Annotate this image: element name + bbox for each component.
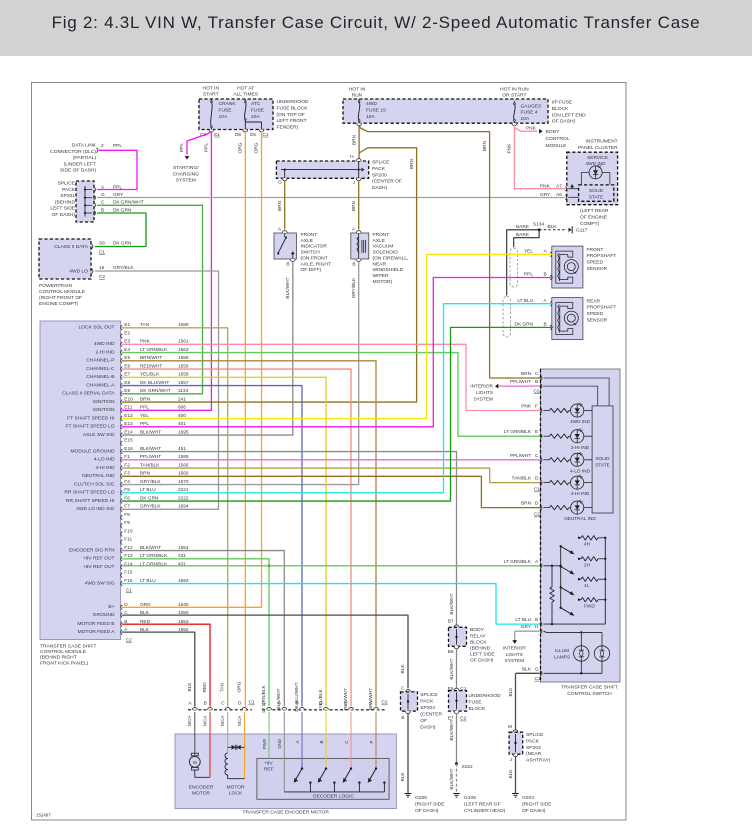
svg-text:BRN: BRN bbox=[521, 501, 532, 507]
svg-text:(BEHIND: (BEHIND bbox=[55, 199, 76, 205]
wire LT GRN/BLK 431 F13 to encoder pin G bbox=[122, 559, 270, 707]
svg-text:GND: GND bbox=[277, 739, 282, 749]
svg-text:LT BLU: LT BLU bbox=[517, 298, 533, 304]
svg-text:OF DASH): OF DASH) bbox=[415, 808, 439, 814]
switch pin bumps and labels bbox=[504, 371, 542, 682]
svg-text:HOT IN: HOT IN bbox=[349, 86, 366, 92]
wire TAN 1589 E1 to encoder motor pin C bbox=[122, 328, 228, 707]
svg-text:IGNITION: IGNITION bbox=[93, 407, 115, 413]
svg-text:FUSE: FUSE bbox=[469, 699, 483, 705]
transfer case shift control switch box bbox=[541, 369, 621, 697]
svg-text:BLK/WHT: BLK/WHT bbox=[449, 593, 455, 614]
svg-text:SYSTEM: SYSTEM bbox=[176, 178, 196, 184]
svg-text:HOT AT: HOT AT bbox=[237, 85, 254, 91]
svg-text:LAMPS: LAMPS bbox=[554, 654, 570, 660]
wire PPL/WHT switch B to interior lights system bbox=[470, 384, 539, 403]
wire ORG ATC D5 down to encoder motor pin D bbox=[238, 132, 246, 707]
svg-text:BLK: BLK bbox=[508, 687, 514, 697]
svg-text:BODY: BODY bbox=[470, 627, 485, 633]
svg-text:LOCK SOL OUT: LOCK SOL OUT bbox=[79, 325, 115, 331]
svg-text:TRANSFER CASE SHIFT: TRANSFER CASE SHIFT bbox=[561, 685, 618, 691]
svg-text:C: C bbox=[535, 371, 539, 377]
svg-text:AXLE SW SIG: AXLE SW SIG bbox=[83, 432, 115, 438]
wire LT GRN/BLK 431 F14 to switch pin A bbox=[122, 565, 542, 567]
svg-text:F10: F10 bbox=[124, 528, 133, 534]
svg-text:RED: RED bbox=[202, 682, 208, 693]
svg-text:YEL/BLK: YEL/BLK bbox=[318, 689, 324, 709]
svg-text:PNK: PNK bbox=[507, 143, 513, 154]
svg-text:GRY/BLK: GRY/BLK bbox=[140, 504, 161, 510]
svg-text:GRY: GRY bbox=[540, 192, 551, 198]
svg-text:LOCK: LOCK bbox=[229, 790, 243, 796]
svg-text:FUSE 4: FUSE 4 bbox=[521, 110, 538, 116]
svg-text:STATE: STATE bbox=[595, 463, 610, 469]
svg-text:D: D bbox=[535, 476, 539, 482]
svg-text:CLASS II SERIAL DATA: CLASS II SERIAL DATA bbox=[62, 391, 115, 397]
module pin rows and labels bbox=[62, 322, 189, 643]
wire BLK/WHT to splice S152 and ground G105 bbox=[449, 713, 473, 793]
svg-text:F14: F14 bbox=[124, 561, 133, 567]
wire BLK/WHT body relay B6 to underhood fuse block E6 bbox=[449, 648, 457, 688]
svg-text:D: D bbox=[535, 501, 539, 507]
wire BLK/WHT 1554 F12 to encoder pin A bbox=[122, 551, 284, 707]
svg-text:C: C bbox=[221, 701, 225, 707]
svg-text:B: B bbox=[401, 715, 404, 721]
svg-text:DECODER LOGIC: DECODER LOGIC bbox=[313, 793, 355, 799]
underhood fuse block (lower) bbox=[448, 686, 501, 722]
svg-text:GROUND: GROUND bbox=[93, 612, 115, 618]
svg-text:S152: S152 bbox=[462, 764, 473, 770]
svg-text:C1: C1 bbox=[126, 588, 132, 594]
svg-text:CHANNEL-P: CHANNEL-P bbox=[86, 358, 114, 364]
svg-text:E1: E1 bbox=[214, 132, 220, 138]
svg-text:DK GRN: DK GRN bbox=[515, 322, 534, 328]
svg-text:2-HI IND: 2-HI IND bbox=[95, 349, 114, 355]
svg-text:C2: C2 bbox=[99, 274, 105, 280]
svg-text:SP201: SP201 bbox=[60, 193, 75, 199]
svg-text:FUSE: FUSE bbox=[251, 107, 265, 113]
svg-text:SPLICE: SPLICE bbox=[420, 692, 438, 698]
svg-text:(CENTER OF: (CENTER OF bbox=[372, 179, 402, 185]
indicator lamp 4-LO IND bbox=[544, 452, 593, 474]
svg-text:INTERIOR: INTERIOR bbox=[503, 646, 526, 652]
svg-text:F11: F11 bbox=[124, 537, 132, 543]
svg-text:PPL: PPL bbox=[179, 143, 185, 152]
svg-text:F15: F15 bbox=[124, 570, 133, 576]
svg-text:FRONT: FRONT bbox=[587, 247, 604, 253]
svg-text:BRN: BRN bbox=[140, 396, 151, 402]
svg-text:OF DASH): OF DASH) bbox=[552, 119, 576, 125]
crank fuse 10A bbox=[200, 99, 236, 138]
svg-text:10A: 10A bbox=[366, 114, 375, 120]
svg-text:(PARTIAL): (PARTIAL) bbox=[73, 155, 97, 161]
svg-text:ALL TIMES: ALL TIMES bbox=[233, 92, 258, 98]
svg-text:GAUGES: GAUGES bbox=[521, 104, 543, 110]
svg-text:PPL: PPL bbox=[140, 405, 149, 411]
svg-text:G105: G105 bbox=[464, 795, 476, 801]
svg-text:B: B bbox=[544, 272, 547, 278]
svg-text:SPLICE: SPLICE bbox=[58, 181, 76, 187]
svg-text:AXLE, RIGHT: AXLE, RIGHT bbox=[301, 261, 331, 267]
svg-text:SPLICE: SPLICE bbox=[372, 160, 390, 166]
svg-text:TAN: TAN bbox=[220, 682, 226, 692]
svg-text:4WD IND: 4WD IND bbox=[94, 341, 115, 347]
svg-text:C: C bbox=[401, 686, 405, 692]
decoder switches and bus bbox=[284, 767, 385, 792]
svg-text:START: START bbox=[203, 92, 219, 98]
svg-text:(LEFT REAR: (LEFT REAR bbox=[580, 208, 609, 214]
svg-text:PWR: PWR bbox=[262, 739, 267, 749]
svg-text:S134: S134 bbox=[533, 221, 544, 227]
data link connector (DLC) bbox=[50, 143, 122, 174]
svg-text:ENCODER: ENCODER bbox=[189, 784, 214, 790]
svg-text:BLK: BLK bbox=[548, 224, 558, 230]
svg-text:(RIGHT SIDE: (RIGHT SIDE bbox=[415, 802, 445, 808]
svg-text:REAR: REAR bbox=[587, 298, 601, 304]
svg-text:E14: E14 bbox=[124, 429, 133, 435]
svg-text:E5: E5 bbox=[250, 132, 256, 138]
svg-text:SP203: SP203 bbox=[526, 745, 541, 751]
wire RED 1553 module B to encoder pin B bbox=[122, 624, 210, 706]
svg-text:ASHTRAY): ASHTRAY) bbox=[526, 758, 551, 764]
wire DK BLU/WHT 1557 E8 to encoder pin B bbox=[122, 386, 302, 707]
svg-text:SENSOR: SENSOR bbox=[587, 266, 608, 272]
svg-text:FRONT KICK PANEL): FRONT KICK PANEL) bbox=[40, 660, 89, 666]
svg-text:BRN: BRN bbox=[482, 140, 488, 151]
svg-text:D5: D5 bbox=[235, 132, 241, 138]
svg-text:241: 241 bbox=[178, 396, 186, 402]
svg-text:B: B bbox=[535, 617, 538, 623]
svg-text:LEFT SIDE: LEFT SIDE bbox=[470, 652, 495, 658]
switch solid state box bbox=[592, 406, 613, 513]
svg-text:IGNITION: IGNITION bbox=[93, 399, 115, 405]
svg-text:CHANNEL-A: CHANNEL-A bbox=[86, 382, 115, 388]
svg-text:BRN: BRN bbox=[351, 200, 357, 211]
svg-text:NEUTRAL IND: NEUTRAL IND bbox=[82, 473, 115, 479]
svg-text:SPEED: SPEED bbox=[587, 260, 604, 266]
svg-text:LT GRN/BLK: LT GRN/BLK bbox=[140, 561, 168, 567]
svg-text:C2: C2 bbox=[460, 716, 466, 722]
svg-text:BRN: BRN bbox=[277, 200, 283, 211]
wire PPL crank fuse to starting/charging bbox=[179, 132, 211, 155]
svg-text:FENDER): FENDER) bbox=[277, 125, 299, 131]
front propshaft speed sensor bbox=[524, 246, 616, 288]
svg-text:PNK: PNK bbox=[521, 404, 532, 410]
wire BLK/WHT 451 E16 to body relay block B7 bbox=[122, 452, 457, 625]
svg-text:(ON FIREWALL,: (ON FIREWALL, bbox=[373, 255, 409, 261]
svg-text:20A: 20A bbox=[251, 114, 260, 120]
svg-text:G205: G205 bbox=[415, 795, 427, 801]
svg-text:STATE: STATE bbox=[589, 194, 604, 200]
svg-text:PROPSHAFT: PROPSHAFT bbox=[587, 253, 617, 259]
svg-text:152497: 152497 bbox=[36, 813, 51, 818]
svg-text:H: H bbox=[350, 154, 354, 160]
front axle vacuum solenoid bbox=[351, 226, 409, 284]
svg-text:INTERIOR: INTERIOR bbox=[470, 384, 493, 390]
svg-text:1570: 1570 bbox=[178, 479, 189, 485]
svg-text:CONNECTOR (DLC): CONNECTOR (DLC) bbox=[50, 149, 96, 155]
svg-text:HOT IN RUN: HOT IN RUN bbox=[500, 86, 529, 92]
svg-text:(ON FRONT: (ON FRONT bbox=[301, 255, 328, 261]
svg-text:PANEL CLUSTER: PANEL CLUSTER bbox=[578, 145, 618, 151]
svg-text:Fig 2: 4.3L VIN W, Transfer Ca: Fig 2: 4.3L VIN W, Transfer Case Circuit… bbox=[52, 13, 701, 32]
svg-text:OF DASH): OF DASH) bbox=[470, 658, 494, 664]
underhood fuse block (crank + ATC fuses) bbox=[199, 85, 309, 130]
svg-text:C2: C2 bbox=[534, 388, 540, 394]
svg-text:16: 16 bbox=[99, 265, 105, 271]
svg-text:CHANNEL-B: CHANNEL-B bbox=[86, 374, 114, 380]
svg-text:STARTING/: STARTING/ bbox=[173, 165, 199, 171]
body relay block bbox=[448, 618, 496, 663]
svg-text:(CENTER: (CENTER bbox=[420, 712, 442, 718]
svg-text:TRANSFER CASE ENCODER MOTOR: TRANSFER CASE ENCODER MOTOR bbox=[243, 810, 330, 816]
svg-text:(BEHIND: (BEHIND bbox=[470, 646, 491, 652]
svg-text:RELAY: RELAY bbox=[470, 633, 486, 639]
illumination lamps circuit bbox=[544, 631, 610, 674]
svg-text:PPL/WHT: PPL/WHT bbox=[510, 379, 531, 385]
svg-text:SPLICE: SPLICE bbox=[526, 732, 544, 738]
wire BRN 241 SP200 branch to module E10 bbox=[122, 148, 417, 402]
svg-text:G: G bbox=[278, 180, 282, 186]
svg-text:BLK/WHT: BLK/WHT bbox=[140, 429, 161, 435]
svg-text:DK GRN: DK GRN bbox=[113, 241, 132, 247]
svg-text:C1: C1 bbox=[535, 676, 541, 682]
svg-text:SOLENOID: SOLENOID bbox=[373, 250, 399, 256]
shield around rear sensor wires bbox=[503, 297, 511, 338]
svg-text:SPEED: SPEED bbox=[587, 311, 604, 317]
transfer case shift control module bbox=[40, 321, 121, 666]
svg-text:MODULE: MODULE bbox=[546, 143, 568, 149]
svg-text:C2: C2 bbox=[126, 638, 132, 644]
svg-text:PACK: PACK bbox=[62, 187, 76, 193]
I/P fuse block (4WD fuse + gauges fuse) bbox=[343, 86, 586, 124]
svg-text:C1: C1 bbox=[99, 250, 105, 256]
splice pack SP201 bbox=[50, 181, 143, 223]
svg-text:PACK: PACK bbox=[372, 166, 386, 172]
wire PPL 806 crank fuse E1 down to module E11 bbox=[122, 132, 211, 411]
wire DK GRN SP201 B to PCM S8 bbox=[95, 213, 146, 247]
svg-text:SP200: SP200 bbox=[372, 172, 387, 178]
svg-text:B+: B+ bbox=[108, 604, 114, 610]
wire PPL DLC pin 2 to splice pack SP201 pin A bbox=[97, 150, 137, 189]
svg-text:10A: 10A bbox=[219, 114, 228, 120]
svg-text:+8V: +8V bbox=[264, 760, 273, 766]
svg-text:POWERTRAIN: POWERTRAIN bbox=[39, 283, 73, 289]
svg-text:FUSE 15: FUSE 15 bbox=[366, 107, 386, 113]
svg-text:SOLID: SOLID bbox=[589, 188, 604, 194]
rear propshaft speed sensor bbox=[515, 298, 617, 340]
svg-text:BLK/WHT: BLK/WHT bbox=[449, 719, 455, 740]
svg-text:BLK/WHT: BLK/WHT bbox=[449, 768, 455, 789]
svg-text:NEAR: NEAR bbox=[373, 261, 387, 267]
svg-text:1133: 1133 bbox=[178, 388, 189, 394]
svg-text:BARE: BARE bbox=[516, 232, 529, 238]
gauges fuse 4 10A bbox=[512, 101, 542, 126]
svg-text:BLK/WHT: BLK/WHT bbox=[285, 277, 291, 298]
svg-text:C2: C2 bbox=[534, 512, 540, 518]
bare shield drain wires to S134 bbox=[507, 221, 545, 295]
svg-text:GRY/BLK: GRY/BLK bbox=[351, 277, 357, 298]
svg-text:ENCODER SIG RTN: ENCODER SIG RTN bbox=[69, 547, 115, 553]
wire BLK S134 to ground G117 bbox=[539, 224, 588, 234]
wire GRY switch H to interior lights system bbox=[503, 631, 540, 664]
svg-text:(ON TOP OF: (ON TOP OF bbox=[277, 112, 305, 118]
svg-text:BLK: BLK bbox=[400, 664, 406, 674]
svg-text:NEUTRAL IND: NEUTRAL IND bbox=[564, 516, 596, 522]
svg-text:CYLINDER HEAD): CYLINDER HEAD) bbox=[464, 808, 506, 814]
wire BRN SP200 J to front axle vacuum solenoid A bbox=[351, 181, 359, 230]
svg-text:LT GRN/BLK: LT GRN/BLK bbox=[504, 559, 532, 565]
svg-text:CONTROL: CONTROL bbox=[546, 136, 570, 142]
wire RED/WHT 1556 E6 to encoder pin C bbox=[122, 369, 351, 706]
wire PNK gauges fuse to cluster A7 and BCM bbox=[507, 125, 566, 188]
svg-text:OF: OF bbox=[420, 718, 427, 724]
svg-text:BRN: BRN bbox=[351, 134, 357, 145]
diagram frame bbox=[32, 83, 627, 821]
wire LT GRN/BLK 1563 E4 to switch pin E bbox=[122, 353, 542, 437]
svg-text:WIPER: WIPER bbox=[373, 273, 389, 279]
svg-text:PACK: PACK bbox=[526, 738, 540, 744]
ATC fuse 20A bbox=[235, 99, 269, 138]
indicator lamp 2-HI IND bbox=[544, 428, 593, 450]
svg-text:LIGHTS: LIGHTS bbox=[506, 652, 523, 658]
svg-text:E10: E10 bbox=[124, 396, 133, 402]
wire BLK SP203 to ground G203 bbox=[508, 756, 516, 793]
svg-text:4-HI IND: 4-HI IND bbox=[95, 465, 114, 471]
svg-text:UNDERHOOD: UNDERHOOD bbox=[277, 99, 310, 105]
svg-text:(LEFT REAR OF: (LEFT REAR OF bbox=[464, 802, 501, 808]
svg-text:FUSE BLOCK: FUSE BLOCK bbox=[277, 105, 309, 111]
svg-text:SYSTEM: SYSTEM bbox=[505, 658, 525, 664]
svg-text:UNDERHOOD: UNDERHOOD bbox=[469, 693, 502, 699]
svg-text:G117: G117 bbox=[576, 228, 588, 234]
svg-text:CLASS II DATA: CLASS II DATA bbox=[54, 244, 89, 250]
svg-text:(BEHIND RIGHT: (BEHIND RIGHT bbox=[40, 655, 77, 661]
svg-text:2H: 2H bbox=[584, 562, 591, 568]
svg-text:YEL: YEL bbox=[524, 249, 533, 255]
wire BRN/WHT 1555 E5 to encoder pin F bbox=[122, 361, 376, 707]
svg-text:SIDE OF DASH): SIDE OF DASH) bbox=[60, 168, 97, 174]
svg-text:DK BLU/WHT: DK BLU/WHT bbox=[294, 682, 300, 711]
svg-text:E2: E2 bbox=[124, 330, 130, 336]
wire YEL/BLK 1558 E7 to encoder pin D bbox=[122, 377, 326, 706]
powertrain control module (PCM) bbox=[39, 239, 134, 307]
starting/charging system arrow bbox=[173, 156, 200, 184]
svg-text:REF: REF bbox=[264, 767, 274, 773]
wire DK GRN 2222 F6 to rear sensor B bbox=[122, 327, 553, 501]
svg-text:CLUTCH SOL SIG: CLUTCH SOL SIG bbox=[74, 481, 115, 487]
splice pack SP204 bbox=[401, 686, 443, 731]
4WD fuse 15 10A bbox=[357, 99, 386, 126]
svg-text:BRN: BRN bbox=[409, 158, 415, 169]
wire TAN/BLK 1566 F2 to switch pin D bbox=[122, 468, 542, 483]
svg-text:806: 806 bbox=[178, 405, 186, 411]
svg-text:C2: C2 bbox=[382, 700, 388, 706]
wire BLK switch G to splice pack SP203 bbox=[508, 673, 540, 730]
svg-text:DASH): DASH) bbox=[420, 725, 436, 731]
wire PPL/WHT 1585 F1 to switch pin C bbox=[122, 459, 542, 461]
svg-text:(RIGHT SIDE: (RIGHT SIDE bbox=[522, 802, 552, 808]
ground G205 bbox=[405, 794, 446, 815]
svg-text:1694: 1694 bbox=[178, 504, 189, 510]
svg-text:RUN: RUN bbox=[352, 92, 363, 98]
svg-text:RR SHAFT SPEED HI: RR SHAFT SPEED HI bbox=[66, 498, 115, 504]
wire PNK 1561 E3 to switch pin F bbox=[122, 344, 542, 410]
wire BRN 4WD fuse down to splice pack SP200 pin H bbox=[350, 125, 359, 160]
svg-text:(ON LEFT END: (ON LEFT END bbox=[552, 112, 586, 118]
svg-text:F7: F7 bbox=[124, 504, 130, 510]
svg-text:1695: 1695 bbox=[178, 429, 189, 435]
wire PPL/WHT switch B to solid state (inside) bbox=[544, 386, 598, 406]
wire BLK 1552 module A to encoder pin A bbox=[122, 632, 195, 706]
svg-text:M: M bbox=[508, 724, 512, 730]
encoder motor connector C1 bbox=[187, 700, 255, 727]
svg-text:N/CA: N/CA bbox=[187, 716, 192, 727]
svg-text:B: B bbox=[544, 322, 547, 328]
svg-text:BLOCK: BLOCK bbox=[470, 639, 487, 645]
svg-text:GRY/BLK: GRY/BLK bbox=[113, 265, 134, 271]
svg-text:E9: E9 bbox=[124, 388, 130, 394]
svg-text:VACUUM: VACUUM bbox=[373, 244, 394, 250]
svg-text:OF DASH): OF DASH) bbox=[52, 212, 76, 218]
svg-text:B: B bbox=[352, 262, 355, 268]
svg-text:LT GRN/BLK: LT GRN/BLK bbox=[261, 685, 267, 713]
svg-text:PNK: PNK bbox=[540, 183, 551, 189]
svg-text:+8V REF OUT: +8V REF OUT bbox=[83, 556, 115, 562]
indicator lamp NEUTRAL IND bbox=[544, 500, 597, 522]
decoder logic box bbox=[257, 758, 389, 799]
svg-text:AXLE: AXLE bbox=[301, 238, 314, 244]
svg-text:LIGHTS: LIGHTS bbox=[476, 390, 493, 396]
svg-text:CHARGING: CHARGING bbox=[173, 171, 200, 177]
svg-text:OF DIFF): OF DIFF) bbox=[301, 267, 322, 273]
wire GRY SP201 G to instrument cluster A6 bbox=[97, 197, 565, 199]
wire ORG 1640 ATC E5 down to module pin D bbox=[122, 132, 262, 608]
splice pack SP200 bbox=[276, 159, 401, 192]
wire BRN switch C to solid state (inside) bbox=[544, 378, 610, 406]
svg-text:C: C bbox=[535, 453, 539, 459]
ground G203 bbox=[512, 794, 552, 815]
svg-text:H: H bbox=[535, 624, 539, 630]
svg-text:1640: 1640 bbox=[178, 602, 189, 608]
svg-text:GRY/BLK: GRY/BLK bbox=[140, 479, 161, 485]
svg-text:M: M bbox=[193, 760, 197, 766]
wire BRN 4WD fuse to switch pin C bbox=[359, 125, 541, 378]
svg-text:PPL: PPL bbox=[113, 143, 122, 149]
svg-text:ENGINE COMPT): ENGINE COMPT) bbox=[39, 301, 79, 307]
svg-text:OF DASH): OF DASH) bbox=[522, 808, 546, 814]
svg-text:RR SHAFT SPEED LO: RR SHAFT SPEED LO bbox=[64, 490, 114, 496]
wire BRN 1560 F3 to switch pin D bbox=[122, 476, 542, 507]
service 4WD indicator LED bbox=[581, 165, 609, 185]
shield around front sensor wires bbox=[510, 248, 518, 287]
svg-text:E11: E11 bbox=[124, 405, 132, 411]
svg-text:4H: 4H bbox=[584, 541, 591, 547]
wire LT BLU 2221 F5 to rear sensor A bbox=[122, 304, 553, 493]
svg-text:N/CA: N/CA bbox=[237, 716, 242, 727]
wire GRY/BLK 1570 solenoid B to module F4 bbox=[122, 262, 359, 485]
svg-text:(NEAR: (NEAR bbox=[526, 751, 542, 757]
svg-text:A: A bbox=[295, 740, 300, 743]
svg-text:DATA LINK: DATA LINK bbox=[72, 143, 97, 149]
indicator lamp 4WD IND bbox=[544, 403, 593, 425]
svg-text:PPL: PPL bbox=[113, 184, 122, 190]
svg-text:INSTRUMENT: INSTRUMENT bbox=[586, 139, 618, 145]
svg-text:BARE: BARE bbox=[516, 224, 529, 230]
svg-text:MOTOR FEED B: MOTOR FEED B bbox=[77, 621, 114, 627]
svg-text:LT GRN/BLK: LT GRN/BLK bbox=[504, 429, 532, 435]
wire BLK/WHT 1695 axle switch B to module E14 bbox=[122, 262, 293, 436]
